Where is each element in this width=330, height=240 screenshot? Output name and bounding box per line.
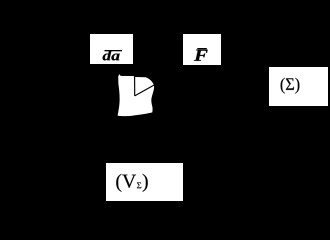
label box da	[90, 34, 133, 64]
overbar of da	[105, 50, 123, 51]
overbar of F	[197, 48, 207, 49]
label text F (bold italic, force vector)	[194, 50, 208, 61]
label text da (bold italic, vector differential area)	[103, 50, 120, 60]
label box Sigma (surface)	[269, 67, 328, 106]
label box V Sigma (volume)	[106, 163, 183, 201]
vector line F (diagonal, on patch)	[135, 85, 155, 96]
vector line da (vertical, on patch)	[134, 76, 136, 96]
label box F	[183, 34, 221, 65]
label text (Sigma)	[281, 78, 300, 94]
surface patch dA (white curved element)	[118, 74, 154, 116]
label text (V Sigma)	[116, 174, 147, 192]
